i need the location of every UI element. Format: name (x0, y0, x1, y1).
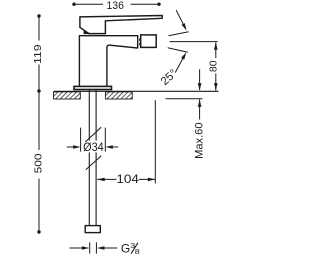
dimension G3/8 tick left (89, 242, 91, 253)
leader arrow to upper stream line (176, 10, 185, 27)
dimension G3/8 tick right (95, 242, 97, 253)
svg-text:8: 8 (135, 247, 140, 256)
base flange (74, 86, 112, 89)
water stream upper line (169, 32, 189, 36)
aerator joint dot upper (139, 38, 141, 41)
dimension 136 end dot left (72, 2, 75, 5)
dimension 500 line (38, 91, 40, 232)
thread label fraction slash (131, 243, 138, 254)
aerator joint dot lower (139, 43, 141, 46)
faucet lever handle (80, 16, 162, 34)
aerator end cap (141, 35, 157, 48)
dimension 119 end dot bottom (37, 89, 40, 92)
dimension 104 arrow left (97, 178, 116, 180)
svg-text:Ø34: Ø34 (83, 140, 104, 154)
dimension G3/8 arrow left (70, 247, 83, 249)
dimension G3/8 arrow right (104, 247, 118, 249)
dimension 136 end dot right (157, 2, 160, 5)
hose break slash lower (86, 156, 101, 170)
svg-text:104: 104 (116, 172, 139, 186)
dimension D34 arrow right (112, 146, 119, 148)
dimension 80 arrow top (214, 42, 218, 50)
svg-text:136: 136 (107, 0, 124, 12)
dimension 500 end dot (37, 230, 40, 233)
dimension 136 line (74, 3, 159, 5)
hose end fitting (85, 226, 100, 233)
svg-text:80: 80 (207, 60, 219, 72)
dimension 119 line (38, 16, 40, 91)
dimension 80 arrow bottom (214, 83, 218, 91)
supply pipe right wall (95, 90, 97, 226)
dimension 104 arrow right (139, 178, 156, 180)
lever base wedge (84, 31, 90, 34)
dimension Max.60 upper arrow (199, 69, 201, 90)
countertop hatch right (105, 92, 132, 99)
dimension 80 line (215, 42, 217, 90)
stream horizontal reference line (170, 41, 218, 43)
countertop underside line (166, 98, 203, 100)
svg-text:Max.60: Max.60 (194, 123, 206, 159)
dimension 119 end dot top (37, 14, 40, 17)
water stream lower line (168, 48, 188, 52)
svg-text:G: G (121, 241, 130, 255)
supply pipe left wall (88, 90, 90, 226)
dimension 104 extension line (154, 100, 156, 183)
svg-text:500: 500 (34, 153, 45, 173)
leader arrow to lower stream line (175, 56, 184, 73)
hose break slash upper (85, 127, 101, 142)
dimension D34 extension tick left (80, 128, 82, 152)
svg-text:119: 119 (33, 44, 44, 64)
dimension D34 extension tick right (104, 128, 106, 152)
dimension D34 arrow left (67, 146, 74, 148)
faucet body and spout (79, 36, 137, 89)
countertop surface line (54, 90, 219, 92)
countertop hatch left (54, 92, 81, 99)
dimension Max.60 lower arrow (199, 99, 201, 119)
